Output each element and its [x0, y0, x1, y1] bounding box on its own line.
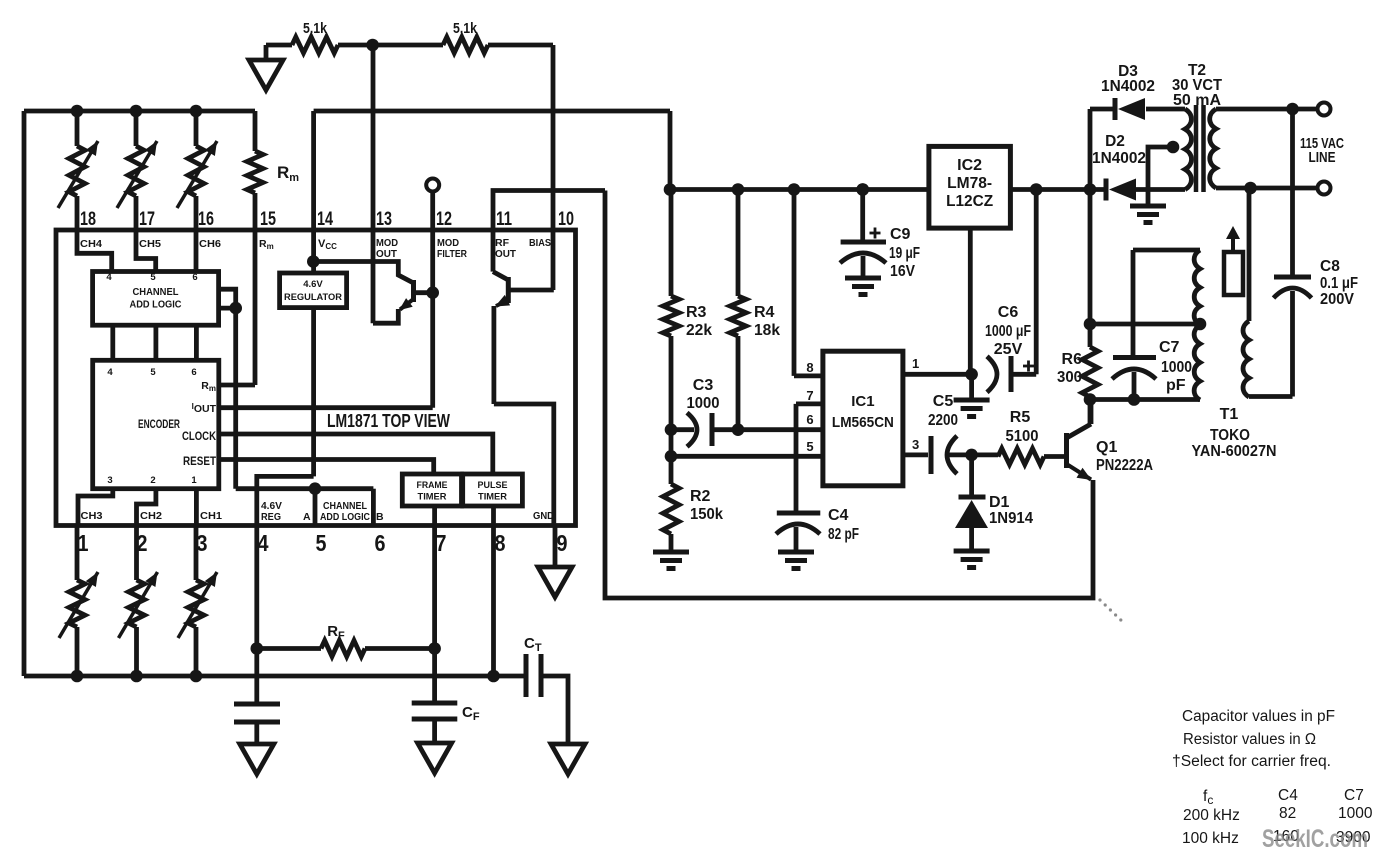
svg-text:Q1: Q1: [1096, 439, 1117, 456]
svg-text:8: 8: [806, 360, 813, 375]
svg-text:†Select for carrier freq.: †Select for carrier freq.: [1172, 753, 1331, 770]
svg-text:18k: 18k: [754, 322, 780, 339]
svg-text:CH2: CH2: [140, 510, 162, 522]
svg-text:16V: 16V: [890, 263, 915, 280]
svg-text:200V: 200V: [1320, 291, 1355, 308]
svg-text:82: 82: [1279, 805, 1296, 822]
svg-text:ENCODER: ENCODER: [138, 417, 180, 431]
svg-text:5: 5: [150, 272, 156, 283]
svg-text:Resistor values in Ω: Resistor values in Ω: [1183, 731, 1316, 748]
svg-text:1: 1: [191, 475, 197, 486]
svg-text:pF: pF: [1166, 377, 1186, 394]
svg-text:PULSE: PULSE: [478, 480, 508, 490]
svg-text:CH1: CH1: [200, 510, 222, 522]
svg-text:14: 14: [317, 209, 333, 230]
svg-text:GND: GND: [533, 510, 554, 522]
svg-text:6: 6: [806, 412, 813, 427]
svg-text:C4: C4: [1278, 787, 1298, 804]
svg-text:19 μF: 19 μF: [889, 245, 920, 262]
svg-text:3: 3: [912, 437, 919, 452]
svg-text:D1: D1: [989, 494, 1010, 511]
svg-text:L12CZ: L12CZ: [946, 193, 993, 210]
svg-text:5: 5: [806, 439, 813, 454]
svg-text:CH4: CH4: [80, 238, 102, 250]
svg-text:TIMER: TIMER: [478, 492, 508, 502]
svg-text:1: 1: [912, 356, 919, 371]
svg-text:LM78-: LM78-: [947, 175, 992, 192]
svg-text:IC1: IC1: [851, 393, 874, 410]
svg-text:C5: C5: [933, 393, 954, 410]
svg-text:2: 2: [137, 530, 148, 556]
svg-text:C7: C7: [1159, 339, 1180, 356]
svg-text:OUT: OUT: [376, 248, 398, 260]
svg-text:4: 4: [107, 367, 113, 378]
svg-text:ADD LOGIC: ADD LOGIC: [130, 300, 182, 311]
svg-text:CH5: CH5: [139, 238, 161, 250]
svg-text:1: 1: [78, 530, 89, 556]
svg-text:1000: 1000: [1161, 359, 1192, 376]
svg-text:7: 7: [436, 530, 447, 556]
svg-text:CH6: CH6: [199, 238, 221, 250]
svg-text:Capacitor values in pF: Capacitor values in pF: [1182, 708, 1335, 725]
svg-text:9: 9: [557, 530, 568, 556]
svg-text:TIMER: TIMER: [418, 492, 448, 502]
svg-text:18: 18: [80, 209, 96, 230]
svg-text:1N4002: 1N4002: [1092, 150, 1146, 167]
svg-text:CLOCK: CLOCK: [182, 431, 217, 443]
svg-text:CH3: CH3: [81, 510, 103, 522]
svg-text:5: 5: [316, 530, 327, 556]
svg-text:5: 5: [150, 367, 156, 378]
svg-text:8: 8: [495, 530, 506, 556]
svg-text:6: 6: [375, 530, 386, 556]
svg-text:17: 17: [139, 209, 155, 230]
svg-text:R2: R2: [690, 488, 711, 505]
svg-text:YAN-60027N: YAN-60027N: [1192, 443, 1277, 460]
svg-text:OUT: OUT: [495, 248, 517, 260]
svg-text:2: 2: [150, 475, 155, 486]
svg-text:FILTER: FILTER: [437, 248, 467, 260]
svg-text:4: 4: [106, 272, 112, 283]
svg-text:B: B: [376, 511, 384, 523]
svg-text:1000: 1000: [1338, 805, 1373, 822]
svg-text:15: 15: [260, 209, 276, 230]
svg-text:10: 10: [558, 209, 574, 230]
svg-text:LM1871 TOP VIEW: LM1871 TOP VIEW: [327, 411, 450, 431]
svg-text:150k: 150k: [690, 506, 723, 523]
svg-text:6: 6: [191, 367, 196, 378]
svg-text:200 kHz: 200 kHz: [1183, 807, 1240, 824]
svg-text:3: 3: [107, 475, 112, 486]
svg-text:IC2: IC2: [957, 157, 982, 174]
svg-text:R6: R6: [1062, 351, 1083, 368]
svg-text:300: 300: [1057, 369, 1082, 386]
svg-text:T1: T1: [1220, 406, 1239, 423]
svg-text:C9: C9: [890, 226, 911, 243]
svg-text:16: 16: [198, 209, 214, 230]
svg-text:C6: C6: [998, 304, 1019, 321]
svg-text:0.1 μF: 0.1 μF: [1320, 275, 1358, 292]
svg-text:IOUT: IOUT: [192, 402, 217, 415]
svg-text:A: A: [303, 511, 311, 523]
svg-text:C8: C8: [1320, 258, 1340, 275]
svg-text:REG: REG: [261, 511, 281, 523]
svg-text:4: 4: [258, 530, 269, 556]
svg-text:REGULATOR: REGULATOR: [284, 292, 342, 303]
svg-text:7: 7: [806, 388, 813, 403]
svg-text:2200: 2200: [928, 412, 958, 429]
svg-text:3: 3: [197, 530, 208, 556]
svg-text:LINE: LINE: [1309, 149, 1336, 166]
svg-text:PN2222A: PN2222A: [1096, 457, 1153, 474]
svg-text:1000: 1000: [687, 395, 720, 412]
svg-text:R5: R5: [1010, 409, 1031, 426]
svg-text:50 mA: 50 mA: [1173, 92, 1221, 109]
svg-text:5.1k: 5.1k: [453, 20, 478, 37]
svg-text:5.1k: 5.1k: [303, 20, 328, 37]
svg-text:ADD LOGIC: ADD LOGIC: [320, 511, 370, 523]
svg-text:RESET: RESET: [183, 456, 216, 468]
svg-text:6: 6: [192, 272, 197, 283]
svg-text:TOKO: TOKO: [1210, 427, 1250, 444]
svg-text:1N4002: 1N4002: [1101, 78, 1155, 95]
svg-text:100 kHz: 100 kHz: [1182, 830, 1239, 847]
svg-text:25V: 25V: [994, 341, 1023, 358]
svg-text:C7: C7: [1344, 787, 1364, 804]
svg-text:5100: 5100: [1006, 428, 1039, 445]
svg-text:BIAS: BIAS: [529, 237, 551, 249]
svg-text:D2: D2: [1105, 133, 1125, 150]
svg-text:R4: R4: [754, 304, 775, 321]
svg-text:R3: R3: [686, 304, 707, 321]
svg-text:FRAME: FRAME: [417, 480, 448, 490]
svg-text:C3: C3: [693, 377, 714, 394]
svg-text:13: 13: [376, 209, 392, 230]
svg-text:LM565CN: LM565CN: [832, 414, 894, 431]
svg-text:22k: 22k: [686, 322, 712, 339]
svg-text:1000 μF: 1000 μF: [985, 323, 1031, 340]
svg-text:C4: C4: [828, 507, 849, 524]
svg-text:82 pF: 82 pF: [828, 526, 859, 543]
svg-text:SeekIC.com: SeekIC.com: [1262, 825, 1368, 853]
svg-text:11: 11: [496, 209, 512, 230]
svg-text:1N914: 1N914: [989, 510, 1033, 527]
svg-text:12: 12: [436, 209, 452, 230]
svg-text:CHANNEL: CHANNEL: [133, 287, 179, 298]
svg-text:4.6V: 4.6V: [303, 279, 323, 290]
